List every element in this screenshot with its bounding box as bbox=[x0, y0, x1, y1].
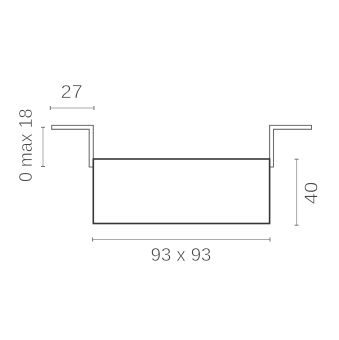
svg-text:40: 40 bbox=[301, 182, 322, 205]
svg-text:27: 27 bbox=[61, 81, 83, 102]
svg-text:0 max 18: 0 max 18 bbox=[15, 109, 36, 183]
svg-text:93 x 93: 93 x 93 bbox=[151, 244, 212, 265]
